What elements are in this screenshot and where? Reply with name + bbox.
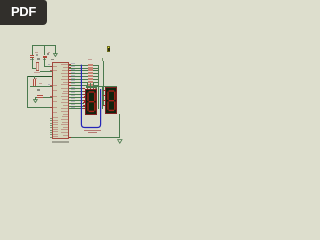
7-seg display1 <box>85 89 97 116</box>
junction: C1 tap <box>32 45 33 46</box>
wire: lower horizontal into U1 <box>27 107 52 108</box>
label X1 <box>37 58 40 59</box>
digit 8 of display1 <box>87 91 96 113</box>
wire: R1 top stub <box>34 76 35 79</box>
wire: bundle between displays <box>98 89 99 110</box>
PDF badge <box>0 0 47 25</box>
buzzer LS1 (yellow) <box>107 46 111 52</box>
junction: C2 tap <box>44 45 45 46</box>
capacitor C2 <box>43 55 47 58</box>
ground at bottom right <box>117 139 123 144</box>
wire: C1 bottom vertical <box>32 58 33 69</box>
wire: C2 bottom vertical <box>44 58 45 66</box>
wire: display2 down to bus <box>119 114 120 138</box>
label C1 <box>35 52 38 54</box>
wire: C3 right into U1 <box>43 97 52 98</box>
display2 left pins <box>103 90 105 91</box>
label R1 <box>34 78 37 79</box>
pin mark at bus left <box>69 136 71 139</box>
7-seg display2 <box>105 87 118 114</box>
wire: long horizontal net <box>27 76 52 77</box>
digit 8 of display2 <box>107 90 116 112</box>
wire: vertical feed right of pack <box>103 61 104 87</box>
capacitor C3 <box>37 95 42 98</box>
ground below C3 <box>35 97 36 100</box>
resistor R1 <box>33 79 36 86</box>
display2 top pin marks <box>106 86 107 89</box>
resistor pack RN boxes <box>0 0 1 1</box>
label under blue wire (7SEG) <box>84 130 101 131</box>
wire: C3 left stub <box>35 97 38 98</box>
net label 4 <box>102 58 104 61</box>
wire: crystal right link (XTAL2) <box>40 71 52 72</box>
wire: left vertical net <box>27 76 28 108</box>
U1 left pin labels <box>0 0 1 1</box>
U1 right pin stubs and wires to resistor pack <box>0 0 1 1</box>
capacitor C1 <box>30 54 34 57</box>
value 33p of C2 <box>43 59 46 60</box>
wire: C1 top vertical <box>32 45 33 54</box>
wire: drops into display1 top <box>87 83 88 89</box>
value 33p of C1 <box>30 59 33 60</box>
label AT89C51 under U1 <box>52 141 69 143</box>
wire: RST horizontal into U1 <box>30 86 52 87</box>
label CRYSTAL <box>34 72 41 73</box>
op microcontroller U1 body <box>52 62 70 140</box>
ground arrow at oscillator right <box>53 53 58 57</box>
U1 right pin labels P0/P2/P3 <box>0 0 1 1</box>
wire: vertical feed 2 <box>98 65 99 89</box>
marker square near C2 <box>47 53 49 55</box>
wire: C2 top vertical <box>44 45 45 55</box>
display1 top pin marks <box>87 87 88 90</box>
wire: distribution horizontal over displays <box>86 86 117 87</box>
blue wire U around display1 <box>79 63 103 130</box>
wire: XTAL1 horizontal into U1 <box>44 66 52 67</box>
display1 left pins <box>84 91 86 92</box>
label of resistor pack <box>88 59 92 61</box>
wire: oscillator right vertical <box>55 45 56 53</box>
label C2 <box>48 52 51 54</box>
wire: oscillator top horizontal <box>32 45 56 46</box>
label 10k <box>37 89 40 91</box>
wire: crystal left link <box>32 68 36 69</box>
label U1 <box>51 59 54 61</box>
wire: drops into display2 top <box>106 86 107 88</box>
crystal X1 <box>36 62 39 71</box>
wire: bottom ground bus <box>69 137 119 138</box>
marker circle near C1 <box>36 54 38 56</box>
